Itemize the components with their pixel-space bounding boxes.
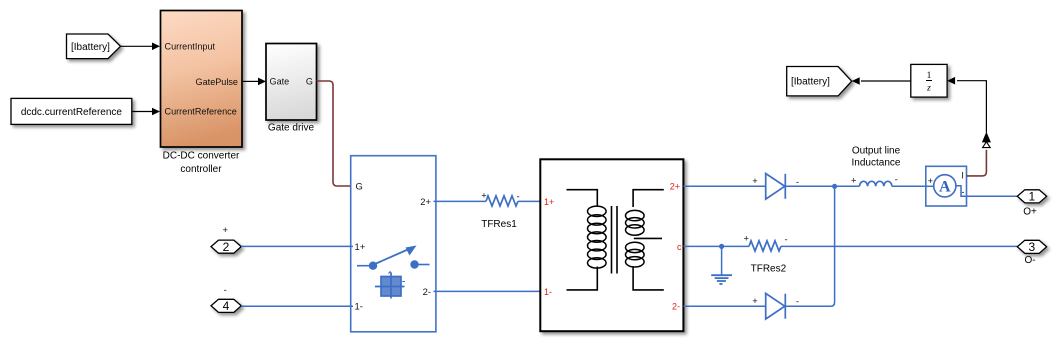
svg-text:O-: O- <box>1024 255 1035 266</box>
unit delay block 1/z <box>911 64 947 97</box>
wire From tag to CurrentInput <box>121 43 161 51</box>
label - above port 4 <box>224 284 227 295</box>
svg-text:-: - <box>224 284 227 295</box>
svg-text:dcdc.currentReference: dcdc.currentReference <box>21 107 123 118</box>
label O- <box>1024 255 1035 266</box>
svg-text:DC-DC converter: DC-DC converter <box>163 151 240 162</box>
svg-text:O+: O+ <box>1023 207 1037 218</box>
svg-text:-: - <box>796 176 799 187</box>
svg-text:-: - <box>895 174 898 185</box>
constant block dcdc.currentReference <box>11 98 132 124</box>
svg-text:+: + <box>481 190 487 201</box>
svg-text:1+: 1+ <box>544 197 554 207</box>
subsystem U1 DC-DC converter controller <box>161 11 243 148</box>
wire TFRes2 to output port 3 <box>781 245 1017 247</box>
label TFRes2 <box>751 264 787 275</box>
wire sensor to output port 1 <box>967 195 1018 197</box>
From tag [Ibattery] <box>67 34 121 59</box>
label O+ <box>1023 207 1037 218</box>
wire D2 up to node A <box>785 186 834 306</box>
svg-text:controller: controller <box>180 164 222 175</box>
svg-text:[Ibattery]: [Ibattery] <box>791 77 830 88</box>
svg-text:-: - <box>784 233 787 244</box>
transformer icon primary lead bottom <box>567 267 598 290</box>
svg-text:+: + <box>222 224 228 235</box>
transformer icon primary lead top <box>567 190 598 206</box>
switch icon inside U3 <box>357 246 430 270</box>
wire unit delay to Goto <box>852 77 911 85</box>
svg-text:Output line: Output line <box>852 145 901 156</box>
svg-text:z: z <box>926 84 931 94</box>
label + above port 2 <box>222 224 228 235</box>
ground <box>711 246 732 284</box>
wire GatePulse to Gate <box>242 78 266 86</box>
label Gate drive <box>268 123 315 134</box>
junction dot c node <box>719 244 724 249</box>
diode D2 <box>752 293 799 319</box>
svg-text:2-: 2- <box>672 302 680 312</box>
svg-text:1+: 1+ <box>355 241 366 252</box>
connection port hollow triangle <box>983 142 991 148</box>
inductor L1 <box>851 174 898 187</box>
svg-text:2-: 2- <box>423 286 431 297</box>
wire inductor to current sensor <box>892 185 926 187</box>
Goto tag [Ibattery] <box>787 67 852 96</box>
transformer icon secondary lower lead <box>633 266 664 290</box>
wire TFRes1 to transformer 1+ <box>518 200 540 202</box>
svg-text:-: - <box>796 296 799 307</box>
svg-text:CurrentInput: CurrentInput <box>165 42 216 52</box>
wire switch 2- to transformer 1- <box>434 290 541 292</box>
transformer block U4 <box>540 159 683 331</box>
svg-text:CurrentReference: CurrentReference <box>165 107 237 117</box>
label DC-DC converter controller <box>163 151 240 175</box>
transformer icon core <box>612 206 618 274</box>
svg-text:+: + <box>928 175 934 186</box>
svg-text:A: A <box>939 178 951 195</box>
node A junction dot <box>832 184 837 189</box>
wire transformer 2- to diode D2 <box>683 305 765 307</box>
transformer icon secondary lower coil <box>626 242 645 267</box>
svg-text:-: - <box>516 190 519 201</box>
svg-text:TFRes2: TFRes2 <box>751 264 787 275</box>
svg-text:1: 1 <box>927 71 932 81</box>
svg-text:G: G <box>306 76 313 86</box>
wire transformer 2+ to diode D1 <box>683 185 765 187</box>
svg-text:GatePulse: GatePulse <box>196 77 238 87</box>
svg-text:Gate: Gate <box>270 76 290 86</box>
transformer icon secondary upper coil <box>626 210 645 235</box>
resistor TFRes1 <box>481 190 519 206</box>
input port 4 <box>211 299 241 313</box>
transformer icon secondary upper lead <box>633 190 664 207</box>
signal arrowhead up (black) <box>947 77 991 142</box>
svg-text:Gate drive: Gate drive <box>268 123 315 134</box>
svg-text:1-: 1- <box>355 301 363 312</box>
wire port2 to switch 1+ <box>241 245 353 247</box>
wire gate signal G to switch (brown) <box>317 81 354 186</box>
wire port4 to switch 1- <box>241 305 353 307</box>
current sensor U5 <box>926 166 967 206</box>
wire constant to CurrentReference <box>132 108 160 116</box>
svg-text:c: c <box>677 242 682 252</box>
resistor TFRes2 <box>744 233 788 251</box>
wire transformer c to TFRes2 <box>683 245 749 247</box>
diode D1 <box>752 174 799 200</box>
svg-text:Inductance: Inductance <box>852 157 901 168</box>
svg-text:+: + <box>851 174 857 185</box>
wire D1 to node A <box>785 185 859 187</box>
svg-text:4: 4 <box>223 299 230 313</box>
svg-text:2: 2 <box>223 240 230 254</box>
label TFRes1 <box>481 219 517 230</box>
svg-text:2+: 2+ <box>420 196 431 207</box>
svg-text:[Ibattery]: [Ibattery] <box>71 42 110 53</box>
svg-text:G: G <box>356 180 363 191</box>
transformer icon primary coil <box>588 206 607 268</box>
svg-text:1-: 1- <box>544 287 552 297</box>
label Output line Inductance <box>852 145 901 168</box>
transformer icon center tap <box>634 237 662 239</box>
svg-text:+: + <box>752 175 758 186</box>
IGBT icon inside U3 <box>375 272 405 299</box>
input port 2 <box>211 240 241 254</box>
svg-text:I: I <box>961 171 964 181</box>
output port 1 <box>1017 190 1046 204</box>
switch block U3 (converter) <box>351 156 436 332</box>
svg-text:+: + <box>744 233 750 244</box>
svg-text:1: 1 <box>1028 190 1035 204</box>
wire switch 2+ to TFRes1 <box>434 200 487 202</box>
svg-text:2+: 2+ <box>670 182 680 192</box>
subsystem U2 Gate drive <box>266 44 317 121</box>
svg-text:3: 3 <box>1028 240 1035 254</box>
physical wire sensor I to connection arrow (brown) <box>967 150 987 176</box>
output port 3 <box>1017 240 1046 254</box>
svg-text:TFRes1: TFRes1 <box>481 219 517 230</box>
svg-text:+: + <box>752 295 758 306</box>
svg-text:-: - <box>961 186 964 197</box>
